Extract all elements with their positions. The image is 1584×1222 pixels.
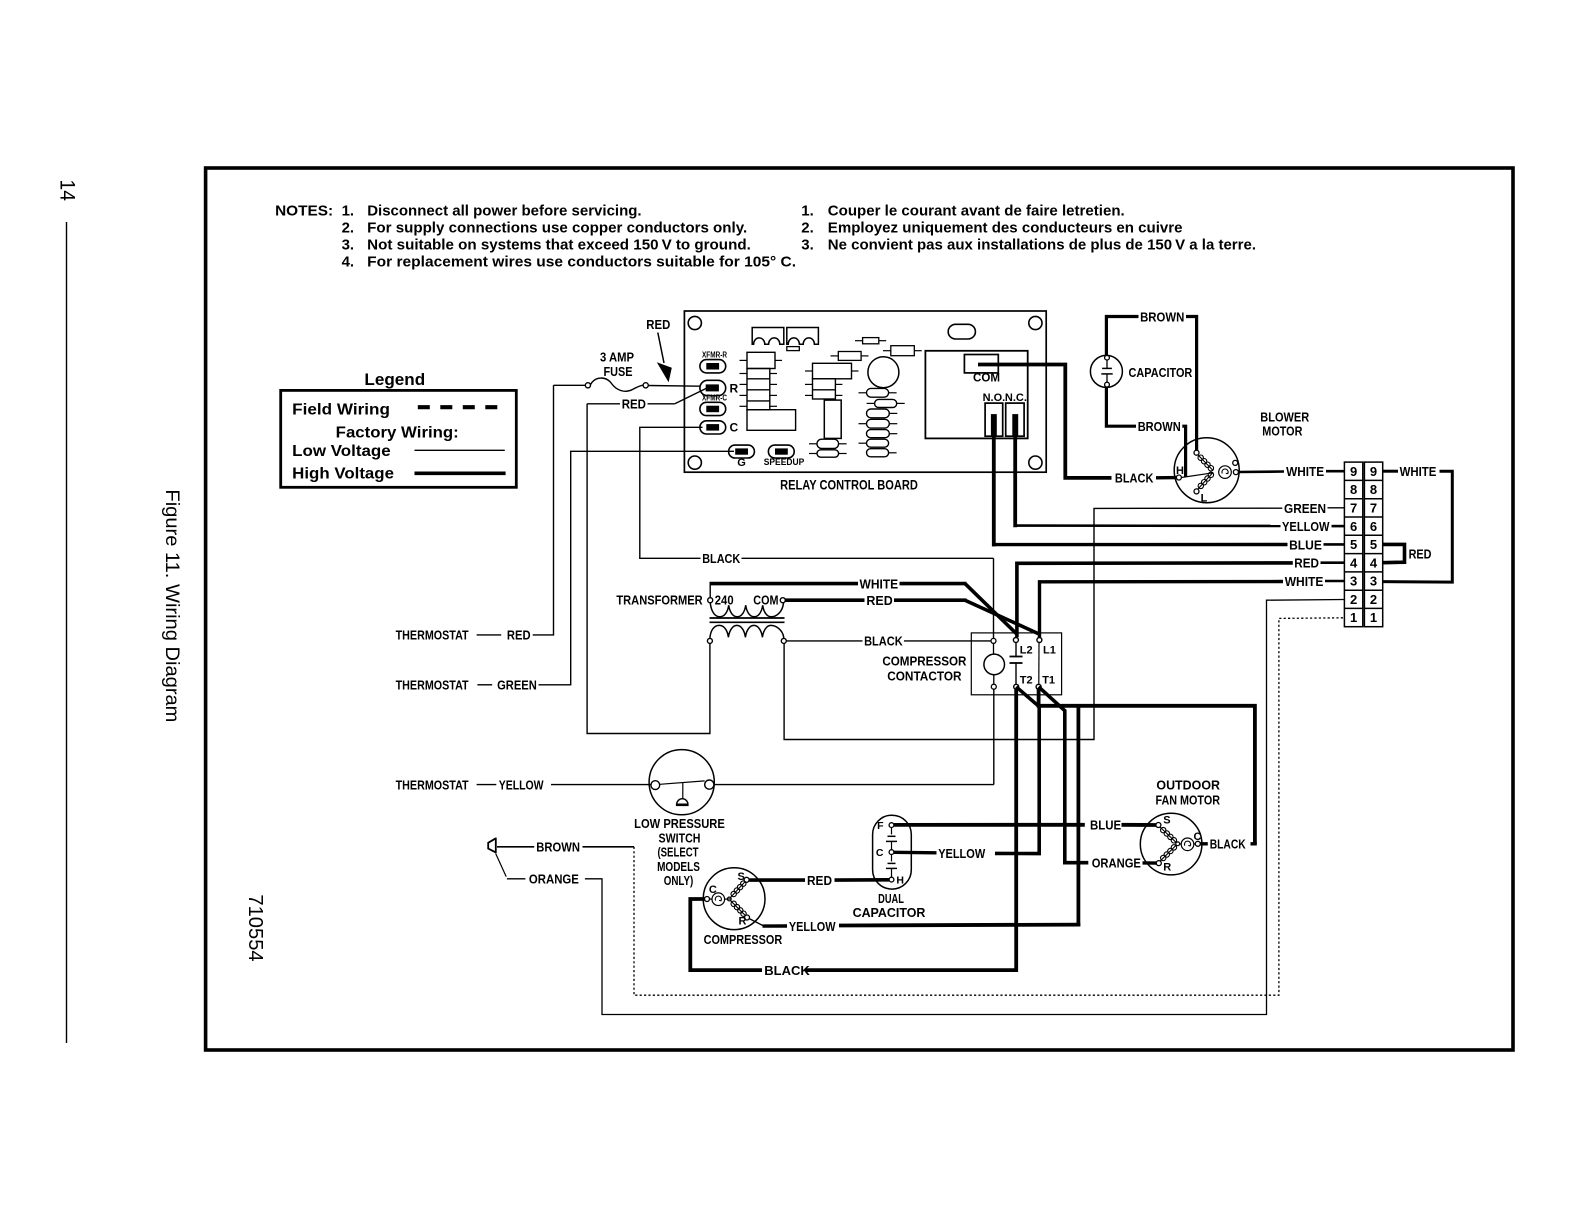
svg-text:WHITE: WHITE [860,576,899,591]
transformer primary winding [710,603,783,617]
relay module box on board [925,351,1027,439]
svg-text:SWITCH: SWITCH [659,831,701,845]
dual capacitor section C-H [891,855,893,862]
svg-text:240: 240 [715,592,734,607]
svg-text:THERMOSTAT: THERMOSTAT [396,778,469,792]
wire BROWN field stub [497,846,534,848]
svg-text:R: R [739,916,747,928]
svg-text:TRANSFORMER: TRANSFORMER [616,592,703,607]
fuse F1 symbol [585,383,590,388]
wire BROWN capacitor bottom [1106,387,1136,426]
wire fuse right lead to terminal R [648,385,700,388]
svg-text:2.: 2. [801,220,814,237]
svg-text:YELLOW: YELLOW [789,919,836,934]
svg-text:F: F [877,820,884,832]
svg-text:3.: 3. [342,237,355,254]
resistor R-mid2 on board [891,346,915,356]
resistor ladder network left [747,352,775,368]
svg-text:Factory Wiring:: Factory Wiring: [336,425,459,442]
svg-text:RELAY CONTROL BOARD: RELAY CONTROL BOARD [780,478,918,493]
compressor R winding [731,901,736,906]
flag lower lead diagonal [496,853,507,876]
svg-text:SPEEDUP: SPEEDUP [764,457,805,468]
board mounting hole bottom-left [688,456,701,469]
svg-text:YELLOW: YELLOW [1282,519,1330,534]
N.C. terminal blade [1012,414,1018,436]
field wiring flag connector [488,838,496,853]
legend box [281,390,517,487]
compressor hub [727,897,731,901]
contactor main contact symbol [1015,643,1017,657]
svg-text:BLUE: BLUE [1090,818,1121,833]
inductor coil stack on board [867,388,889,397]
wire BLACK compressor C to T2 [690,899,762,970]
svg-text:BLACK: BLACK [864,635,903,649]
wire thermostat red stub [477,634,502,636]
svg-text:S: S [1163,814,1170,826]
svg-text:BLUE: BLUE [1289,537,1322,552]
svg-text:5: 5 [1370,537,1377,552]
svg-text:BLACK: BLACK [1210,837,1246,852]
resistor ladder network middle [813,363,852,379]
svg-text:C: C [709,884,717,896]
blower winding bottom to L [1198,483,1203,488]
contactor terminal L1 [1037,638,1042,643]
fan R winding [1161,855,1166,860]
N.O. terminal blade [991,414,997,436]
wire BLACK fan C to T1 riser [1200,842,1208,845]
wire T1 to fan black riser [1039,689,1255,844]
svg-text:H: H [896,875,904,887]
svg-text:BROWN: BROWN [1140,309,1184,324]
svg-text:MODELS: MODELS [657,860,700,874]
wire WHITE loop strip 9 right [1383,470,1398,473]
wire RED compressor S to capacitor H [749,878,805,882]
LPS lever [660,781,705,784]
capacitor block vertical [824,400,841,438]
terminal G pill [729,445,755,458]
svg-text:C: C [730,421,739,435]
LPS left contact [651,781,660,790]
transformer can circle on board [868,357,899,388]
transformer secondary terminal left [707,638,712,643]
dual capacitor C3 outline [873,815,912,889]
svg-text:NOTES:: NOTES: [275,203,333,220]
svg-text:WHITE: WHITE [1286,464,1324,479]
wire RED diagonal to L1 [965,600,1039,634]
transformer core [710,617,785,619]
svg-text:N.C.: N.C. [1005,392,1027,404]
blower internal lead H to protector [1181,473,1213,478]
svg-text:Figure 11. Wiring Diagram: Figure 11. Wiring Diagram [161,489,182,722]
capacitor C2 top terminal [1105,355,1110,360]
wire common to contactor coil top [742,557,994,559]
blower aux terminal [1233,460,1238,465]
svg-text:3 AMP: 3 AMP [600,350,634,365]
transformer T1 primary terminal 240 [708,598,713,603]
wire N.C. relay output down [1013,436,1017,527]
svg-text:FUSE: FUSE [604,364,633,379]
svg-text:WHITE: WHITE [1285,574,1324,589]
svg-text:3.: 3. [801,237,814,254]
svg-text:R: R [1163,862,1171,874]
svg-text:1: 1 [1350,610,1357,625]
svg-text:COMPRESSOR: COMPRESSOR [882,655,966,669]
svg-text:1.: 1. [342,203,355,220]
svg-text:T2: T2 [1020,674,1033,686]
wire COM relay feed [978,365,1112,478]
terminal C pill [700,421,726,434]
svg-text:CAPACITOR: CAPACITOR [1129,366,1193,380]
svg-text:THERMOSTAT: THERMOSTAT [396,678,469,692]
wire T2 diagonal to capacitor yellow riser [995,687,1039,854]
wire terminal G to green riser [539,451,735,685]
transformer secondary terminal right [781,638,786,643]
blower motor M1 circle [1174,438,1239,503]
wire BLUE to strip 5 [992,543,1288,546]
wire fuse left lead [554,384,586,386]
svg-text:7: 7 [1350,501,1357,516]
svg-text:6: 6 [1370,519,1377,534]
board mounting hole top-right [1029,316,1042,329]
svg-text:8: 8 [1370,482,1377,497]
outdoor fan motor M2 circle [1140,813,1202,875]
compressor M3 circle [703,868,765,930]
LPS actuator stem and dome [682,783,684,799]
dual capacitor section F-C [891,828,893,835]
svg-text:XFMR-R: XFMR-R [702,351,727,360]
relay footprint K1 (castle shape left) [752,328,784,345]
svg-text:MOTOR: MOTOR [1262,424,1303,439]
svg-text:Legend: Legend [364,370,425,389]
compressor S winding [731,891,736,896]
svg-text:FAN MOTOR: FAN MOTOR [1156,792,1221,807]
terminal R pill [700,380,726,395]
fan C terminal [1195,841,1200,846]
svg-text:2: 2 [1350,592,1357,607]
compressor C terminal [705,897,710,902]
terminal XFMR-R pill [700,360,726,373]
svg-text:Ne convient pas aux installati: Ne convient pas aux installations de plu… [828,237,1256,254]
relay control board U1 outline [684,311,1046,472]
compressor contactor box [971,633,1061,695]
dual capacitor H terminal [889,877,894,882]
svg-text:8: 8 [1350,482,1357,497]
svg-text:2.: 2. [342,220,355,237]
compressor thermal protector [712,893,725,906]
wire T1 diagonal to orange riser [1039,687,1089,863]
svg-text:BLOWER: BLOWER [1260,409,1309,424]
component block below ladder [747,410,796,431]
svg-text:1.: 1. [801,203,814,220]
wire thermostat green stub [477,684,492,686]
svg-text:RED: RED [507,628,531,642]
svg-text:710554: 710554 [244,894,266,961]
svg-text:RED: RED [807,873,832,888]
oval pad top of board [948,324,975,339]
svg-text:LOW PRESSURE: LOW PRESSURE [634,817,725,831]
wire BROWN capacitor top loop [1106,317,1138,356]
compressor R terminal [745,915,750,920]
wire WHITE strip 3 to L1 [1040,582,1284,638]
contactor coil [984,654,1005,675]
wire thermostat red riser [533,385,554,635]
svg-text:N.O.: N.O. [983,392,1006,404]
svg-text:High Voltage: High Voltage [292,466,394,483]
dual capacitor F terminal [889,823,894,828]
small pad under castle [787,347,800,351]
LPS right contact [705,780,714,789]
svg-text:BROWN: BROWN [536,840,580,855]
wire RED from COM primary [785,598,864,602]
legend low voltage line sample [415,449,505,451]
board mounting hole top-left [688,316,701,329]
fan thermal protector [1181,838,1194,851]
svg-text:YELLOW: YELLOW [499,778,544,792]
strip numbers right column [1370,464,1378,625]
svg-text:3: 3 [1370,574,1377,589]
legend high voltage line sample [415,471,506,475]
svg-text:L1: L1 [1043,645,1056,657]
svg-text:GREEN: GREEN [497,678,537,692]
wire terminal C down-left [640,427,703,558]
svg-text:ORANGE: ORANGE [1092,856,1141,871]
margin rule line [66,222,68,1043]
svg-text:For supply connections use cop: For supply connections use copper conduc… [367,220,747,237]
svg-text:5: 5 [1350,537,1357,552]
strip numbers left column [1350,464,1358,625]
wire N.O. relay output down [992,436,996,546]
svg-text:L2: L2 [1020,645,1033,657]
svg-text:G: G [737,457,746,469]
svg-text:3: 3 [1350,574,1357,589]
transformer secondary winding [710,625,784,638]
contactor terminal T2 [1014,684,1019,689]
wire RED jumper strip 5 to 4 [1383,544,1405,562]
svg-text:Not suitable on systems that e: Not suitable on systems that exceed 150 … [367,237,751,254]
svg-text:BLACK: BLACK [702,552,740,566]
svg-text:RED: RED [1409,546,1432,561]
svg-text:S: S [738,871,745,883]
wire GREEN common loop (secondary right to strip 7) [784,508,1282,739]
N.C. terminal block [1006,403,1024,436]
svg-text:9: 9 [1370,464,1377,479]
svg-text:DUAL: DUAL [878,891,904,906]
svg-text:Disconnect all power before se: Disconnect all power before servicing. [367,203,641,220]
wire T1 branch down to compressor yellow [1077,706,1081,926]
blower thermal protector [1219,466,1232,479]
svg-text:Couper le courant avant de fai: Couper le courant avant de faire letreti… [828,203,1125,220]
svg-text:9: 9 [1350,464,1357,479]
wire RED-2 diagonal into terminal R [675,388,707,404]
contactor coil bottom terminal [993,675,995,685]
svg-text:COM: COM [753,592,778,607]
svg-text:1: 1 [1370,610,1377,625]
svg-text:OUTDOOR: OUTDOOR [1156,778,1220,793]
capacitor C2 symbol [1106,360,1108,368]
svg-text:CONTACTOR: CONTACTOR [887,670,961,684]
svg-text:YELLOW: YELLOW [938,846,986,861]
wire ORANGE field stub [507,878,526,880]
svg-text:ORANGE: ORANGE [529,872,579,887]
svg-text:For replacement wires use cond: For replacement wires use conductors sui… [367,254,796,271]
svg-text:4: 4 [1350,555,1358,570]
svg-text:THERMOSTAT: THERMOSTAT [396,628,469,642]
svg-text:WHITE: WHITE [1400,464,1437,479]
blower L terminal [1194,489,1199,494]
N.O. terminal block [985,403,1003,436]
contactor terminal L2 [1013,638,1018,643]
svg-text:BLACK: BLACK [764,963,810,978]
COM terminal block [964,355,998,373]
relay footprint K2 (castle shape right) [787,328,819,345]
fan R terminal [1156,861,1161,866]
blower top terminal [1194,450,1199,455]
contactor L1 internal lead [1038,643,1040,685]
terminal SPEEDUP pill [768,445,794,458]
svg-text:RED: RED [1294,556,1319,571]
svg-text:Field Wiring: Field Wiring [292,402,390,419]
svg-text:RED: RED [866,593,892,608]
svg-text:XFMR-C: XFMR-C [702,393,727,402]
terminal strip TB1 [1344,462,1382,627]
legend field wiring dashed sample [418,405,502,409]
board mounting hole bottom-right [1029,456,1042,469]
svg-text:6: 6 [1350,519,1357,534]
terminal XFMR-C pill [700,402,726,415]
svg-text:BROWN: BROWN [1138,419,1181,434]
svg-text:RED: RED [646,317,670,332]
low pressure switch S1 circle [649,750,714,815]
svg-text:C: C [876,847,884,859]
svg-text:H: H [1176,465,1184,477]
wire secondary right BLACK segment [786,640,862,642]
wire RED-2 label segment right [648,403,675,405]
dual capacitor C terminal [889,850,894,855]
fan S terminal [1156,823,1161,828]
fan S winding [1161,827,1166,832]
RED callout arrow [658,333,664,364]
svg-text:ONLY): ONLY) [664,874,694,888]
svg-text:CAPACITOR: CAPACITOR [853,905,926,920]
svg-text:L: L [1201,493,1208,505]
svg-text:COMPRESSOR: COMPRESSOR [704,932,783,947]
resistor R-top on board [863,338,879,344]
resistor R-mid1 on board [838,352,861,361]
svg-text:BLACK: BLACK [1115,471,1154,486]
wire WHITE high voltage run [710,582,859,586]
contactor coil top terminal [991,638,996,643]
svg-text:2: 2 [1370,592,1377,607]
wire RED strip 4 to L2 [1017,563,1293,638]
svg-text:4: 4 [1370,555,1378,570]
svg-text:GREEN: GREEN [1284,501,1326,516]
wire ORANGE field run to strip 2 [585,600,1345,1015]
svg-text:(SELECT: (SELECT [657,846,698,860]
svg-text:RED: RED [622,397,646,412]
svg-text:T1: T1 [1042,674,1055,686]
svg-text:R: R [730,382,739,396]
wire 240 to WHITE run [709,584,711,598]
svg-text:C: C [1194,831,1202,843]
svg-text:Employez uniquement des conduc: Employez uniquement des conducteurs en c… [828,220,1183,237]
fan hub [1176,842,1180,846]
svg-text:Low Voltage: Low Voltage [292,443,391,460]
wire WHITE diagonal to L2 [965,584,1016,634]
wire YELLOW to strip 6 [1014,524,1281,527]
pads below capacitor block [817,439,839,448]
compressor S terminal [744,877,749,882]
wire BLUE capacitor F to fan S [894,823,1085,827]
wire WHITE blower to strip 9 [1238,470,1284,473]
blower winding top [1198,455,1203,460]
svg-text:COM: COM [973,371,1000,385]
svg-text:7: 7 [1370,501,1377,516]
wire LPS to contactor coil bottom [714,784,994,786]
svg-text:4.: 4. [342,254,355,271]
wire RED-2 label segment left [587,403,620,405]
contactor terminal T1 [1036,684,1041,689]
blower C terminal [1233,470,1238,475]
blower H terminal [1176,475,1181,480]
wire BROWN field dashed run to strip 1 [583,846,635,848]
wire RED-2 vertical run [587,404,710,734]
svg-text:14: 14 [56,179,80,201]
capacitor C2 circle [1090,355,1122,387]
wire YELLOW compressor R [749,919,763,926]
page border frame [206,168,1513,1050]
